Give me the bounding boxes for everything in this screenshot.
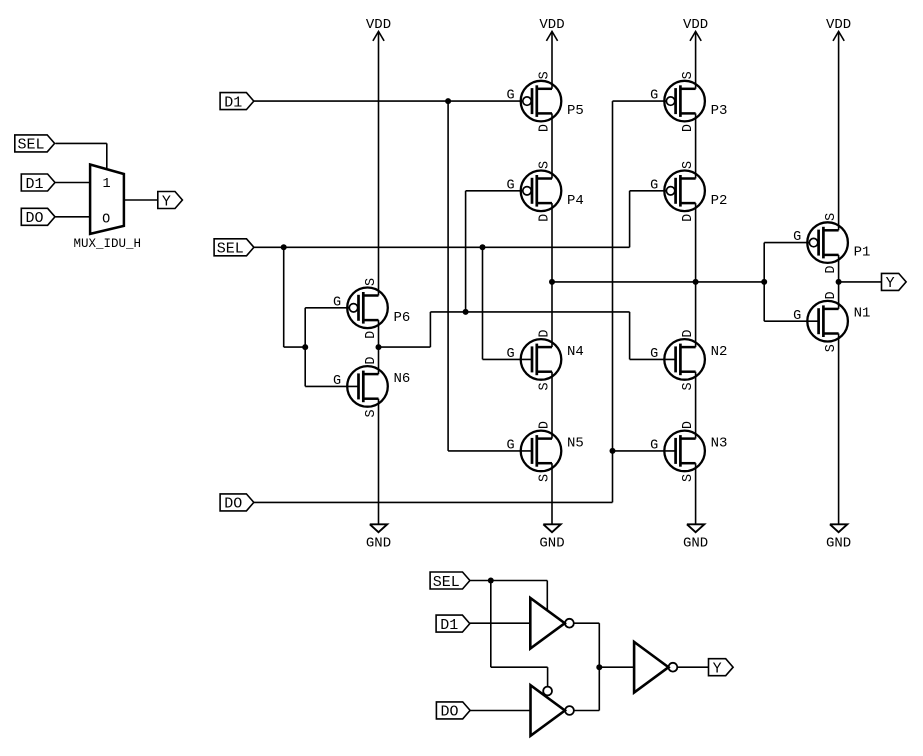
svg-text:GND: GND [826,535,851,551]
power symbol VDD (rail 1) [366,17,391,41]
svg-text:Y: Y [886,275,895,292]
svg-text:O: O [102,212,110,227]
P4 gate bar [531,178,534,204]
mux symbol MUX_IDU_H trapezoid body [90,165,124,234]
wire U7 output horizontal [574,622,600,624]
P3 channel bar [679,85,682,117]
svg-text:G: G [650,89,658,104]
svg-text:S: S [537,161,552,169]
transistor N4 (NMOS, gate SEL) [507,330,584,391]
P2 gate bar [674,178,677,204]
N1 body circle [807,301,848,342]
wire SEL vertical branch to P6/N6 gates [283,247,285,347]
P2 gate bubble [666,187,674,195]
wire N4 gate horizontal [483,358,533,360]
svg-text:N2: N2 [711,344,728,360]
junction P1/N1 gate tie [761,279,767,285]
svg-text:MUX_IDU_H: MUX_IDU_H [73,237,141,251]
P5 gate bar [531,88,534,114]
svg-text:G: G [507,439,515,454]
svg-text:GND: GND [366,535,391,551]
wire rail2 P4 drain to N4 drain [551,203,553,347]
wire rail2 N4 source to N5 drain [551,372,553,439]
power symbol VDD (rail 4) [826,17,851,41]
wire P1 gate horizontal [764,242,809,244]
wire N3 gate horizontal [613,450,676,452]
N4 gate bar [531,346,534,372]
wire U7/U8 output tie vertical [598,623,600,710]
svg-text:G: G [793,230,801,245]
wire rail2 P5 drain to P4 source [551,113,553,178]
wire SEL vertical branch to N4 gate [482,247,484,359]
svg-text:N5: N5 [567,435,584,451]
svg-text:P2: P2 [711,193,728,209]
svg-text:D: D [681,214,696,222]
svg-text:G: G [650,347,658,362]
wire net SELB from P6/N6 drains junction [379,346,431,348]
power symbol VDD (rail 3) [683,17,708,41]
P3 gate bar [674,88,677,114]
wire net D0 from label to P3/N3 branch corner [254,501,613,503]
wire SEL branch horizontal jog [284,346,306,348]
svg-text:S: S [537,382,552,390]
P1 channel bar [822,227,825,259]
svg-text:P6: P6 [394,310,411,326]
N3 body circle [664,431,705,472]
wire U8 output horizontal [574,710,599,712]
svg-text:D: D [537,421,552,429]
inverter U9 (output) triangle [634,642,668,693]
svg-text:S: S [681,382,696,390]
svg-text:S: S [681,474,696,482]
svg-text:D: D [537,214,552,222]
N6 body circle [347,366,388,407]
wire rail3 P3 drain to P2 source [695,113,697,178]
transistor N1 (NMOS, output inverter) [793,291,870,352]
svg-text:G: G [333,295,341,310]
junction SEL/P6-N6-gate branch [281,244,287,250]
input label D0 (mux) [21,208,55,227]
wire rail4 VDD to P1 source [838,31,840,230]
P6 channel bar [362,292,365,324]
junction SELB at P6/N6 drains [376,344,382,350]
wire N5 gate horizontal [448,450,532,452]
svg-text:S: S [537,71,552,79]
N5 drain/source arms [537,437,552,440]
junction YB at rail2 [549,279,555,285]
power symbol GND (rail 4) [826,524,851,551]
transistor P3 (PMOS, gate D0) [650,71,727,132]
wire P6/N6 gate tie vertical [304,308,306,387]
wire mux D0 input [56,216,91,218]
transistor N3 (NMOS, gate D0) [650,421,727,482]
junction D1/N5-gate [445,98,451,104]
svg-text:D: D [681,124,696,132]
transistor N6 (NMOS, SEL inverter) [333,357,410,418]
wire rail4 N1 source to GND [838,334,840,524]
transistor P4 (PMOS, gate SELB) [507,161,584,222]
input label D1 (net D1) [220,93,254,112]
wire SEL vertical to P2 gate [629,191,631,248]
N5 channel bar [535,435,538,467]
tri-state inverter U8 enable bubble (active low) [543,687,552,696]
svg-text:P3: P3 [711,103,728,119]
wire P4 gate horizontal [466,190,523,192]
svg-text:D: D [537,124,552,132]
wire P3 gate horizontal [613,100,667,102]
N4 body circle [521,339,562,380]
wire P1/N1 gate tie vertical [763,243,765,322]
svg-text:G: G [507,89,515,104]
P4 drain/source arms [537,177,552,180]
svg-text:Y: Y [162,193,171,210]
wire rail2 VDD to P5 source [551,31,553,88]
N2 gate bar [674,346,677,372]
input label SEL (logic) [430,572,470,591]
inverter U9 output bubble [669,663,678,672]
wire tie to U9 input [599,666,634,668]
N3 drain/source arms [680,437,695,440]
input label D1 (mux) [21,174,55,193]
svg-text:S: S [364,278,379,286]
N2 drain/source arms [680,346,695,349]
P3 drain/source arms [680,88,695,91]
svg-text:DO: DO [224,496,242,513]
P6 gate bar [357,295,360,321]
svg-text:G: G [650,439,658,454]
P2 drain/source arms [680,177,695,180]
P4 channel bar [535,175,538,207]
wire SELB horizontal run to N2 gate corner [430,311,629,313]
svg-text:GND: GND [539,535,564,551]
wire logic SEL branch jog [491,666,548,668]
svg-text:N6: N6 [394,371,411,387]
N5 body circle [521,431,562,472]
N6 channel bar [362,371,365,403]
svg-text:P4: P4 [567,193,584,209]
wire N1 gate horizontal [764,320,818,322]
svg-text:N1: N1 [854,306,871,322]
svg-text:S: S [364,409,379,417]
N6 gate bar [357,373,360,399]
power symbol GND (rail 1) [366,524,391,551]
transistor N2 (NMOS, gate SELB) [650,330,727,391]
wire SELB vertical branch to P4 gate [465,191,467,312]
svg-text:G: G [650,178,658,193]
wire net Y from P1/N1 drains to output label [839,281,882,283]
N3 gate bar [674,438,677,464]
svg-text:D: D [537,330,552,338]
N1 channel bar [822,305,825,337]
junction D0/N3-gate branch [610,448,616,454]
P1 body circle [807,222,848,263]
wire U7 enable vertical [546,581,548,611]
wire logic SEL branch vertical [490,581,492,668]
output label Y (mux) [158,192,183,211]
wire net D1 vertical branch to N5 gate [447,101,449,451]
N2 body circle [664,339,705,380]
wire logic D0 to U8 input [470,710,531,712]
junction YB at rail3 [693,279,699,285]
svg-text:S: S [681,161,696,169]
svg-text:S: S [681,71,696,79]
N4 channel bar [535,344,538,376]
wire rail1 P6 drain to N6 drain [378,320,380,374]
N1 drain/source arms [823,308,838,311]
P5 channel bar [535,85,538,117]
N2 channel bar [679,344,682,376]
P3 gate bubble [666,97,674,105]
wire U8 enable vertical [547,667,549,686]
input label SEL (mux) [15,135,55,154]
svg-text:GND: GND [683,535,708,551]
transistor P5 (PMOS, gate D1) [507,71,584,132]
wire P6 gate horizontal [305,307,349,309]
wire logic D1 to U7 input [470,622,530,624]
transistor P1 (PMOS, output inverter) [793,213,870,274]
P4 gate bubble [523,187,531,195]
tri-state inverter U8 output bubble [565,706,574,715]
N6 drain/source arms [363,373,378,376]
svg-text:P1: P1 [854,245,871,261]
svg-text:D: D [364,331,379,339]
output label Y (logic) [709,659,734,678]
P6 body circle [347,288,388,329]
power symbol VDD (rail 2) [539,17,564,41]
wire rail3 N3 source to GND [695,463,697,524]
tri-state inverter U8 (D0 branch) triangle [531,685,565,736]
svg-text:D: D [364,357,379,365]
svg-text:G: G [793,309,801,324]
svg-text:Y: Y [713,661,722,678]
wire U9 output to Y label [677,666,708,668]
svg-text:D: D [681,421,696,429]
input label D1 (logic) [436,615,470,634]
junction P6-N6 gate tie [302,344,308,350]
svg-text:D: D [681,330,696,338]
junction SELB/P4-gate branch [463,309,469,315]
wire SELB vertical jog [429,312,431,347]
P2 body circle [664,171,705,212]
output label Y (net Y) [882,273,907,292]
P5 gate bubble [523,97,531,105]
wire N2 gate horizontal [630,358,676,360]
tri-state inverter U7 (D1 branch) triangle [530,598,565,649]
svg-text:G: G [333,374,341,389]
svg-text:SEL: SEL [17,137,44,154]
junction U7/U8 outputs [596,664,602,670]
input label D0 (logic) [436,702,470,721]
input label D0 (net D0) [220,494,254,513]
transistor P6 (PMOS, SEL inverter) [333,278,410,339]
wire rail1 VDD to P6 source [378,31,380,295]
svg-text:G: G [507,178,515,193]
P1 gate bar [817,230,820,256]
wire logic SEL to U7 enable corner [470,580,547,582]
wire internal node YB between stacks and P1/N1 gates [552,281,764,283]
wire mux D1 input [56,182,91,184]
input label SEL (net SEL) [214,239,254,258]
tri-state inverter U7 output bubble [565,619,574,628]
svg-text:S: S [537,474,552,482]
P5 body circle [521,81,562,122]
svg-text:D: D [824,266,839,274]
svg-text:G: G [507,347,515,362]
wire net SEL from label to P2 gate corner [254,246,630,248]
N4 drain/source arms [537,346,552,349]
svg-text:SEL: SEL [433,574,460,591]
svg-text:N3: N3 [711,435,728,451]
svg-text:D1: D1 [224,94,242,111]
P1 gate bubble [809,238,817,246]
N1 gate bar [817,308,820,334]
svg-text:D1: D1 [440,617,458,634]
wire rail2 N5 source to GND [551,463,553,524]
transistor N5 (NMOS, gate D1) [507,421,584,482]
wire net D1 from label to P5 gate [254,100,523,102]
svg-text:1: 1 [102,177,110,192]
junction Y at P1/N1 drains [836,279,842,285]
junction SEL/N4-gate branch [480,244,486,250]
P5 drain/source arms [537,88,552,91]
svg-text:P5: P5 [567,103,584,119]
svg-text:N4: N4 [567,344,584,360]
wire rail3 P2 drain to N2 drain [695,203,697,347]
P4 body circle [521,171,562,212]
transistor P2 (PMOS, gate SEL) [650,161,727,222]
wire D0 vertical branch to P3 gate [612,101,614,502]
wire rail3 N2 source to N3 drain [695,372,697,439]
N5 gate bar [531,438,534,464]
wire rail1 N6 source to GND [378,399,380,524]
power symbol GND (rail 3) [683,524,708,551]
P1 drain/source arms [823,229,838,232]
wire mux Y output [124,199,158,201]
svg-text:SEL: SEL [217,241,244,258]
wire P2 gate horizontal [630,190,667,192]
svg-text:D: D [824,291,839,299]
svg-text:DO: DO [25,210,43,227]
wire SELB vertical to N2 gate [629,312,631,360]
P2 channel bar [679,175,682,207]
svg-text:S: S [824,213,839,221]
P3 body circle [664,81,705,122]
wire rail3 VDD to P3 source [695,31,697,88]
P6 gate bubble [349,304,357,312]
svg-text:D1: D1 [25,176,43,193]
P6 drain/source arms [363,294,378,297]
wire rail4 P1 drain to N1 drain [838,255,840,309]
svg-text:S: S [824,344,839,352]
svg-text:DO: DO [440,704,458,721]
N3 channel bar [679,435,682,467]
wire mux SEL to select pin [56,143,107,168]
wire N6 gate horizontal [305,385,358,387]
junction logic SEL branch [488,578,494,584]
power symbol GND (rail 2) [539,524,564,551]
